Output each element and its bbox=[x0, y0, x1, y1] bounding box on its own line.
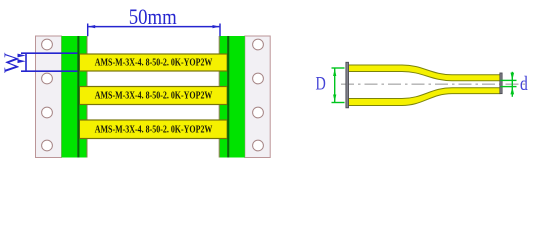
left rail dark green divider line bbox=[77, 36, 79, 158]
sprocket hole R4 bbox=[253, 140, 264, 151]
svg-text:AMS-M-3X-4. 8-50-2. 0K-YOP2W: AMS-M-3X-4. 8-50-2. 0K-YOP2W bbox=[95, 56, 213, 68]
right narrow green ledge bbox=[220, 36, 228, 158]
side view: right end cap bbox=[500, 73, 502, 94]
dimension W : extension lines bbox=[21, 53, 77, 71]
sprocket hole R2 bbox=[253, 73, 264, 84]
sprocket hole L4 bbox=[42, 140, 53, 151]
sprocket hole L3 bbox=[42, 107, 53, 118]
svg-text:50mm: 50mm bbox=[129, 4, 177, 29]
left rail dark divider overlay (over sleeve ends) bbox=[77, 36, 79, 158]
svg-text:AMS-M-3X-4. 8-50-2. 0K-YOP2W: AMS-M-3X-4. 8-50-2. 0K-YOP2W bbox=[95, 123, 213, 135]
dimension d : dimension line (vertical, arrows outside) bbox=[511, 72, 513, 97]
side view: left end cap bbox=[346, 62, 349, 108]
marker sleeve 1 (yellow band) bbox=[79, 54, 227, 71]
left green rail (bright) bbox=[62, 36, 78, 158]
dimension d : arrowheads (outside) bbox=[511, 73, 515, 81]
svg-text:W: W bbox=[0, 52, 24, 73]
sprocket hole L1 bbox=[42, 39, 53, 50]
right green rail (bright) bbox=[229, 36, 245, 158]
sprocket hole R3 bbox=[253, 107, 264, 118]
side view: tube bottom wall bbox=[349, 88, 501, 106]
right carrier strip bbox=[245, 36, 270, 158]
left narrow green ledge (visible between sleeves) bbox=[79, 36, 87, 158]
marker sleeve 2 (yellow band) bbox=[79, 87, 227, 105]
right rail dark divider overlay (over sleeve ends) bbox=[227, 36, 229, 158]
dimension d : extension lines (green) bbox=[501, 72, 517, 97]
dimension D : extension lines (green) bbox=[332, 68, 345, 103]
svg-text:AMS-M-3X-4. 8-50-2. 0K-YOP2W: AMS-M-3X-4. 8-50-2. 0K-YOP2W bbox=[95, 90, 213, 102]
side view: tube top wall (wide to taper to narrow) bbox=[349, 65, 501, 81]
left carrier strip with sprocket holes bbox=[36, 36, 62, 158]
dimension 50mm : right arrowhead bbox=[213, 25, 220, 28]
side view: centerline (dash-dot) bbox=[341, 83, 528, 85]
dimension 50mm : extension lines bbox=[88, 24, 220, 37]
svg-text:d: d bbox=[520, 72, 528, 94]
dimension W : arrowheads bbox=[18, 54, 26, 58]
sprocket hole L2 bbox=[42, 73, 53, 84]
dimension 50mm : left arrowhead bbox=[88, 25, 95, 28]
marker sleeve 3 (yellow band) bbox=[79, 120, 227, 139]
right rail dark green divider line bbox=[227, 36, 229, 158]
dimension D : arrowheads bbox=[333, 68, 336, 76]
svg-text:D: D bbox=[316, 73, 326, 94]
dimension 50mm : dimension line bbox=[88, 26, 219, 28]
dimension W : dimension line (vertical) bbox=[25, 53, 27, 71]
sprocket hole R1 bbox=[253, 39, 264, 50]
dimension D : dimension line bbox=[334, 68, 336, 103]
